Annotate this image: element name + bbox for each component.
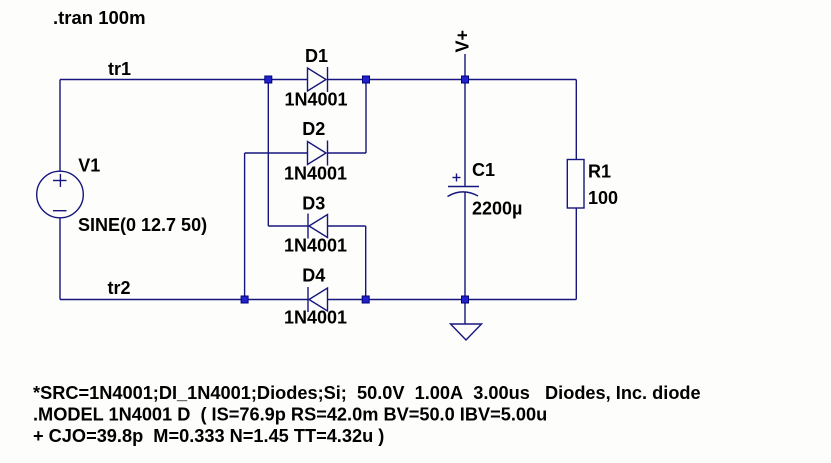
resistor R1 body bbox=[567, 160, 584, 209]
svg-text:V1: V1 bbox=[78, 155, 100, 175]
node junction A tr1 bbox=[265, 76, 272, 83]
svg-text:1N4001: 1N4001 bbox=[285, 90, 348, 110]
wire tr1 top horizontal left of D1 bbox=[60, 79, 308, 81]
wire vertical V+ node down to C1 top bbox=[464, 80, 466, 187]
capacitor C1 symbol bbox=[448, 174, 480, 197]
svg-text:1N4001: 1N4001 bbox=[284, 308, 347, 328]
voltage source V1 circle bbox=[37, 171, 84, 218]
node junction tr2 C1 bbox=[462, 296, 469, 303]
wire left vertical above V1 bbox=[59, 80, 61, 172]
wire right vertical R1 bottom to tr2 bbox=[575, 208, 577, 300]
svg-text:SINE(0 12.7 50): SINE(0 12.7 50) bbox=[78, 215, 207, 235]
svg-text:.tran 100m: .tran 100m bbox=[53, 7, 146, 28]
wire D3 row right segment bbox=[328, 225, 366, 227]
wire tr1 top horizontal right of D1 to top-right corner bbox=[328, 79, 577, 81]
svg-text:R1: R1 bbox=[588, 162, 611, 182]
node junction B tr1 bbox=[363, 76, 370, 83]
wire D3 row left segment bbox=[268, 225, 308, 227]
wire V+ stub above node bbox=[464, 54, 466, 80]
wire vertical junction B down to D2 right bbox=[365, 80, 367, 154]
svg-text:D1: D1 bbox=[305, 46, 328, 66]
diode D3 symbol bbox=[308, 214, 328, 239]
svg-text:D4: D4 bbox=[302, 265, 325, 285]
svg-text:tr2: tr2 bbox=[108, 278, 131, 298]
wire vertical D2 left down to tr2 bbox=[244, 153, 246, 300]
node junction tr2 left bbox=[241, 296, 248, 303]
svg-text:*SRC=1N4001;DI_1N4001;Diodes;S: *SRC=1N4001;DI_1N4001;Diodes;Si; 50.0V 1… bbox=[33, 383, 701, 403]
wire D2 row left segment bbox=[245, 152, 308, 154]
svg-text:1N4001: 1N4001 bbox=[284, 236, 347, 256]
svg-text:+ CJO=39.8p M=0.333 N=1.45 TT: + CJO=39.8p M=0.333 N=1.45 TT=4.32u ) bbox=[33, 426, 384, 446]
node junction V+ bbox=[462, 76, 469, 83]
wire vertical D3 right down to tr2 bbox=[365, 226, 367, 300]
diode D2 symbol bbox=[308, 141, 328, 166]
svg-text:C1: C1 bbox=[472, 160, 495, 180]
wire D2 row right segment bbox=[328, 152, 367, 154]
wire left vertical below V1 bbox=[59, 218, 61, 300]
svg-text:100: 100 bbox=[588, 188, 618, 208]
ground symbol bbox=[451, 324, 482, 340]
wire vertical tr2 down to ground bbox=[464, 300, 466, 324]
svg-text:tr1: tr1 bbox=[108, 59, 131, 79]
node junction tr2 mid bbox=[362, 296, 369, 303]
diode D4 symbol bbox=[308, 287, 328, 312]
wire vertical C1 bottom down to tr2 bbox=[464, 193, 466, 300]
svg-text:1N4001: 1N4001 bbox=[284, 163, 347, 183]
wire tr2 bottom horizontal left of D4 bbox=[60, 299, 309, 301]
svg-text:D2: D2 bbox=[302, 119, 325, 139]
diode D1 symbol bbox=[308, 67, 328, 92]
wire tr2 bottom horizontal right of D4 bbox=[328, 299, 577, 301]
svg-text:2200µ: 2200µ bbox=[472, 198, 522, 218]
wire vertical junction A down to D3 row bbox=[267, 80, 269, 227]
wire right vertical down to R1 top bbox=[575, 80, 577, 160]
svg-text:D3: D3 bbox=[302, 193, 325, 213]
svg-text:V+: V+ bbox=[453, 30, 473, 53]
svg-text:.MODEL 1N4001 D ( IS=76.9p RS: .MODEL 1N4001 D ( IS=76.9p RS=42.0m BV=5… bbox=[33, 405, 547, 425]
